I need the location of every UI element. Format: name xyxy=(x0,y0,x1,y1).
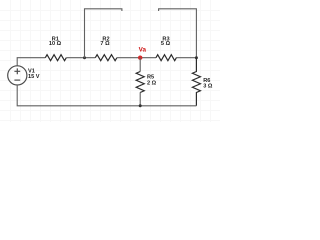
label R1 value 10 ohm xyxy=(49,37,62,48)
wire: R1 right to R2 left (through junction) xyxy=(66,57,95,59)
resistor R2 xyxy=(95,55,117,61)
label R3 value 5 ohm xyxy=(161,36,171,47)
label R2 value 7 ohm xyxy=(100,36,110,47)
label node Va xyxy=(139,47,147,54)
svg-text:7 Ω: 7 Ω xyxy=(100,41,110,47)
wire: R3 right to right node xyxy=(176,57,196,59)
wire: riser from J1 up to top-left bridge with open stub end xyxy=(85,9,122,58)
wire: main horizontal net V1 top to R1 xyxy=(17,58,45,66)
svg-text:5 Ω: 5 Ω xyxy=(161,41,171,47)
resistor R3 xyxy=(156,55,176,61)
voltage source V1 xyxy=(8,66,27,85)
resistor R6 xyxy=(192,58,200,106)
label V1 value 15 V xyxy=(28,69,40,80)
resistor R1 xyxy=(45,55,66,61)
wire: top-right bridge with open stub, down to right node xyxy=(159,9,197,58)
node Va (red probe dot) xyxy=(138,56,142,60)
svg-text:2 Ω: 2 Ω xyxy=(147,80,157,86)
svg-text:Va: Va xyxy=(139,47,147,54)
node junction J1 xyxy=(83,56,86,59)
label R6 value 3 ohm xyxy=(203,78,213,90)
svg-text:3 Ω: 3 Ω xyxy=(203,84,213,90)
wire: R5 bottom lead to bottom net xyxy=(139,92,141,106)
wire: R2 right through node Va to R3 left xyxy=(117,57,156,59)
wire: V1 bottom lead and bottom return net xyxy=(17,85,196,106)
resistor R5 xyxy=(136,72,144,93)
node junction right (R3/R6/bridge) xyxy=(195,56,198,59)
svg-text:10 Ω: 10 Ω xyxy=(49,41,62,47)
node junction bottom (R5 to bottom net) xyxy=(139,104,142,107)
wire: R5 top lead from Va xyxy=(139,58,141,72)
svg-text:15 V: 15 V xyxy=(28,74,40,80)
label R5 value 2 ohm xyxy=(147,75,157,87)
